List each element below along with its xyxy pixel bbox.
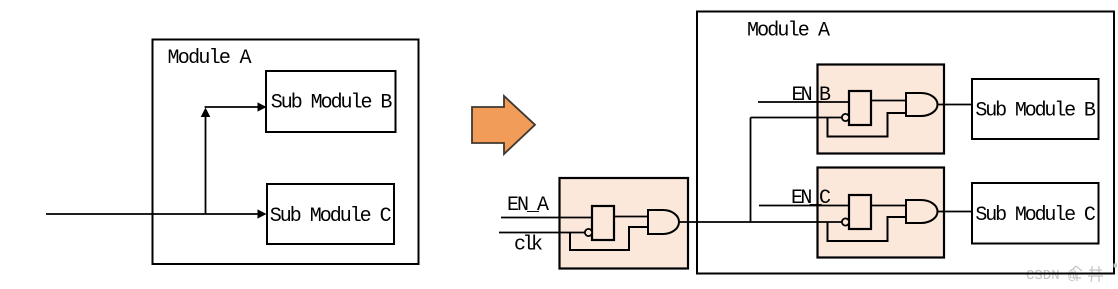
sub module C box (left) bbox=[267, 184, 394, 244]
module A box (left) bbox=[153, 40, 419, 265]
svg-text:Sub Module B: Sub Module B bbox=[975, 100, 1096, 123]
svg-text:Module A: Module A bbox=[747, 19, 830, 42]
latch U2 (cell B) bbox=[849, 91, 871, 125]
wire cell B clk horizontal bbox=[751, 117, 843, 119]
svg-text:EN_A: EN_A bbox=[507, 194, 549, 217]
wire: branch horizontal to Sub Module B bbox=[205, 106, 258, 108]
sub module B box (left) bbox=[266, 71, 396, 132]
wire latch Q to AND (cell A) bbox=[614, 216, 648, 218]
wire clk feedback to AND lower input (cell C) bbox=[828, 217, 907, 241]
wire: main input to Sub Module C bbox=[46, 213, 258, 215]
wire cell B output to Sub Module B bbox=[938, 104, 972, 106]
module A box (right) bbox=[697, 12, 1114, 274]
watermark dot bbox=[1114, 264, 1118, 268]
wire latch Q to AND (cell C) bbox=[871, 205, 906, 207]
sub module B box (right) bbox=[972, 79, 1099, 139]
clock bubble (cell C latch) bbox=[842, 218, 849, 225]
svg-text:Sub Module C: Sub Module C bbox=[270, 205, 392, 228]
wire latch Q to AND (cell B) bbox=[871, 100, 906, 102]
svg-text:CSDN @: CSDN @ bbox=[1026, 268, 1077, 284]
clock gating cell C background bbox=[818, 168, 945, 258]
wire clk into latch bubble bbox=[499, 232, 585, 234]
wire: branch vertical up at node bbox=[205, 114, 207, 214]
svg-text:Sub Module C: Sub Module C bbox=[975, 204, 1096, 227]
wire cell C output to Sub Module C bbox=[938, 211, 972, 213]
clock gating cell A background bbox=[560, 178, 689, 269]
AND gate (cell C) bbox=[906, 200, 938, 223]
wire clk feedback to AND lower input (cell B) bbox=[828, 113, 907, 137]
wire gated clock output of cell A to branch node and cell C clk bbox=[679, 221, 843, 223]
svg-text:EN_B: EN_B bbox=[792, 84, 832, 107]
watermark glyph hui bbox=[1088, 266, 1103, 282]
arrowhead into Sub Module C bbox=[258, 209, 267, 218]
sub module C box (right) bbox=[972, 183, 1099, 244]
clock bubble (cell B latch) bbox=[842, 114, 849, 121]
svg-text:clk: clk bbox=[514, 234, 543, 257]
clock gating cell B background bbox=[818, 65, 945, 154]
latch U3 (cell C) bbox=[849, 195, 871, 229]
latch U1 (cell A) bbox=[592, 206, 614, 240]
wire EN_A into latch bbox=[501, 217, 592, 219]
watermark glyph dong bbox=[1071, 266, 1083, 281]
wire EN_C into cell C latch bbox=[759, 205, 849, 207]
AND gate (cell A) bbox=[648, 210, 679, 234]
svg-text:Sub Module B: Sub Module B bbox=[271, 92, 393, 115]
arrowhead pointing up on branch bbox=[201, 108, 211, 118]
wire branch vertical up to cell B clk bbox=[750, 118, 752, 223]
wire EN_B into cell B latch bbox=[758, 101, 849, 103]
AND gate (cell B) bbox=[906, 93, 938, 116]
clock bubble (cell A latch) bbox=[585, 229, 592, 236]
wire clk feedback to AND lower input (cell A) bbox=[570, 227, 648, 250]
arrowhead into Sub Module B bbox=[258, 102, 267, 111]
svg-text:Module A: Module A bbox=[168, 47, 252, 70]
big orange transform arrow bbox=[472, 96, 535, 154]
